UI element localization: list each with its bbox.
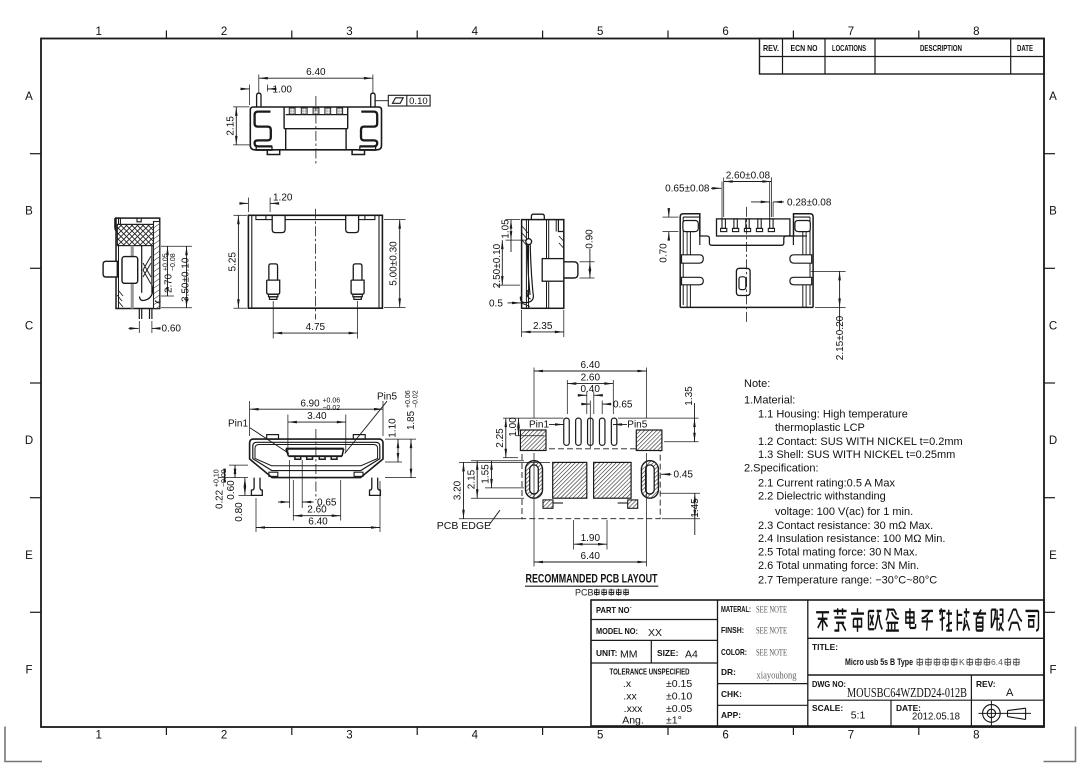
svg-text:6.40: 6.40 bbox=[581, 360, 601, 371]
svg-text:7: 7 bbox=[848, 730, 854, 742]
svg-text:.xxx: .xxx bbox=[624, 703, 643, 715]
svg-text:SEE NOTE: SEE NOTE bbox=[756, 649, 787, 659]
svg-text:RECOMMANDED PCB LAYOUT: RECOMMANDED PCB LAYOUT bbox=[526, 574, 658, 586]
svg-text:UNIT:: UNIT: bbox=[596, 648, 617, 658]
svg-text:2.2 Dielectric withstanding: 2.2 Dielectric withstanding bbox=[758, 491, 886, 503]
svg-text:SEE NOTE: SEE NOTE bbox=[756, 627, 787, 637]
svg-text:−0.02: −0.02 bbox=[413, 390, 420, 408]
svg-text:DWG NO:: DWG NO: bbox=[812, 679, 846, 689]
svg-text:0.40: 0.40 bbox=[580, 384, 600, 395]
svg-text:1.Material:: 1.Material: bbox=[744, 395, 795, 407]
svg-text:F: F bbox=[25, 665, 32, 677]
svg-text:0.22: 0.22 bbox=[215, 490, 226, 509]
svg-text:1.20: 1.20 bbox=[273, 193, 293, 204]
svg-text:Pin1: Pin1 bbox=[228, 419, 248, 430]
svg-text:DATE: DATE bbox=[1017, 44, 1033, 53]
svg-text:B: B bbox=[25, 206, 33, 218]
svg-text:5: 5 bbox=[597, 730, 603, 742]
svg-text:MODEL NO:: MODEL NO: bbox=[596, 626, 638, 636]
svg-text:1.55: 1.55 bbox=[481, 464, 492, 484]
svg-text:0.65: 0.65 bbox=[613, 400, 633, 411]
svg-text:8: 8 bbox=[973, 730, 979, 742]
svg-text:1.2 Contact: SUS WITH NICK: 1.2 Contact: SUS WITH NICKEL t=0.2mm bbox=[758, 436, 963, 448]
svg-text:7: 7 bbox=[848, 26, 854, 38]
svg-text:+0.05: +0.05 bbox=[163, 253, 170, 271]
svg-text:xiayouhong: xiayouhong bbox=[757, 671, 798, 682]
svg-text:2.15: 2.15 bbox=[225, 116, 236, 136]
svg-text:2.Specification:: 2.Specification: bbox=[744, 463, 819, 475]
svg-text:2.3 Contact resistance: 30: 2.3 Contact resistance: 30 mΩ Max. bbox=[758, 520, 933, 532]
svg-text:Note:: Note: bbox=[744, 378, 770, 390]
svg-text:CHK:: CHK: bbox=[721, 689, 742, 699]
svg-text:+0.06: +0.06 bbox=[322, 398, 340, 405]
svg-text:2: 2 bbox=[221, 26, 227, 38]
svg-text:−0.08: −0.08 bbox=[170, 253, 177, 271]
svg-text:5.25: 5.25 bbox=[227, 252, 238, 272]
svg-text:0.10: 0.10 bbox=[409, 96, 428, 107]
svg-text:±0.10: ±0.10 bbox=[666, 691, 692, 703]
svg-text:C: C bbox=[25, 320, 33, 332]
svg-text:1.3 Shell: SUS WITH NICKEL: 1.3 Shell: SUS WITH NICKEL t=0.25mm bbox=[758, 449, 955, 461]
svg-text:TOLERANCE UNSPECIFIED: TOLERANCE UNSPECIFIED bbox=[610, 667, 690, 677]
svg-text:2.60: 2.60 bbox=[307, 505, 327, 516]
svg-text:6.4: 6.4 bbox=[991, 657, 1003, 667]
svg-text:6.40: 6.40 bbox=[308, 517, 328, 528]
svg-text:1.05: 1.05 bbox=[501, 219, 512, 239]
svg-text:4: 4 bbox=[472, 26, 479, 38]
svg-text:COLOR:: COLOR: bbox=[721, 647, 747, 657]
svg-text:E: E bbox=[1049, 550, 1057, 562]
svg-text:6.40: 6.40 bbox=[306, 67, 326, 78]
svg-text:1.90: 1.90 bbox=[581, 533, 601, 544]
svg-text:+0.10: +0.10 bbox=[214, 469, 221, 487]
svg-text:Pin5: Pin5 bbox=[377, 392, 397, 403]
svg-text:1: 1 bbox=[95, 26, 101, 38]
svg-text:2012.05.18: 2012.05.18 bbox=[912, 711, 960, 723]
svg-text:4: 4 bbox=[472, 730, 479, 742]
svg-text:2.5 Total mating force: 30: 2.5 Total mating force: 30 N Max. bbox=[758, 547, 918, 559]
svg-text:5: 5 bbox=[597, 26, 603, 38]
svg-text:5.00±0.30: 5.00±0.30 bbox=[389, 241, 400, 286]
svg-text:3.40: 3.40 bbox=[307, 411, 327, 422]
svg-text:2.6 Total unmating force:: 2.6 Total unmating force: 3N Min. bbox=[758, 560, 919, 572]
svg-text:A: A bbox=[1049, 91, 1057, 103]
svg-text:A: A bbox=[25, 91, 33, 103]
svg-text:±1°: ±1° bbox=[666, 715, 682, 727]
svg-text:Pin1: Pin1 bbox=[529, 420, 549, 431]
svg-text:0.70: 0.70 bbox=[659, 243, 670, 263]
svg-text:FINSH:: FINSH: bbox=[721, 625, 744, 635]
svg-text:APP:: APP: bbox=[721, 710, 741, 720]
svg-text:2.15: 2.15 bbox=[466, 469, 477, 489]
svg-text:2.50±0.10: 2.50±0.10 bbox=[492, 243, 503, 288]
svg-text:Ang.: Ang. bbox=[622, 715, 644, 727]
svg-text:thermoplastic LCP: thermoplastic LCP bbox=[775, 422, 865, 434]
svg-text:1.45: 1.45 bbox=[690, 498, 701, 518]
svg-text:SEE NOTE: SEE NOTE bbox=[756, 606, 787, 616]
svg-text:A: A bbox=[1006, 687, 1014, 699]
svg-text:2: 2 bbox=[221, 730, 227, 742]
svg-text:K: K bbox=[959, 657, 965, 667]
svg-text:3.20: 3.20 bbox=[453, 480, 464, 500]
svg-text:1.1 Housing: High temperatu: 1.1 Housing: High temperature bbox=[758, 409, 908, 421]
svg-text:+0.06: +0.06 bbox=[405, 390, 412, 408]
svg-text:SCALE:: SCALE: bbox=[812, 703, 843, 713]
svg-text:.x: .x bbox=[623, 678, 632, 690]
svg-text:1.00: 1.00 bbox=[273, 84, 293, 95]
svg-text:−0.00: −0.00 bbox=[221, 469, 228, 487]
svg-text:1.35: 1.35 bbox=[684, 386, 695, 406]
svg-text:6.90: 6.90 bbox=[301, 399, 321, 410]
svg-text:REV:: REV: bbox=[976, 679, 996, 689]
svg-text:2.1 Current rating:0.5 A Ma: 2.1 Current rating:0.5 A Max bbox=[758, 478, 895, 490]
svg-text:3.50±0.10: 3.50±0.10 bbox=[181, 257, 192, 302]
svg-text:LOCATIONS: LOCATIONS bbox=[832, 44, 866, 53]
svg-text:MM: MM bbox=[620, 649, 638, 661]
svg-text:voltage: 100 V(ac) for 1: voltage: 100 V(ac) for 1 min. bbox=[775, 506, 913, 518]
svg-text:2.70: 2.70 bbox=[164, 273, 175, 293]
svg-text:2.25: 2.25 bbox=[495, 428, 506, 448]
svg-text:6: 6 bbox=[722, 26, 728, 38]
svg-text:4.75: 4.75 bbox=[306, 322, 326, 333]
svg-text:±0.15: ±0.15 bbox=[666, 678, 692, 690]
svg-text:MOUSBC64WZDD24-012B: MOUSBC64WZDD24-012B bbox=[847, 686, 967, 701]
svg-text:F: F bbox=[1049, 665, 1056, 677]
svg-text:.xx: .xx bbox=[623, 691, 637, 703]
svg-text:1.00: 1.00 bbox=[508, 417, 519, 437]
svg-text:5:1: 5:1 bbox=[851, 710, 866, 722]
svg-text:PCB: PCB bbox=[575, 587, 594, 597]
svg-text:0.65±0.08: 0.65±0.08 bbox=[665, 184, 710, 195]
svg-text:0.80: 0.80 bbox=[234, 502, 245, 522]
svg-text:D: D bbox=[25, 435, 33, 447]
svg-text:2.60: 2.60 bbox=[581, 373, 601, 384]
svg-text:A4: A4 bbox=[685, 649, 698, 661]
svg-text:0.5: 0.5 bbox=[489, 298, 503, 309]
svg-text:1: 1 bbox=[95, 730, 101, 742]
svg-text:PCB EDGE: PCB EDGE bbox=[437, 520, 491, 532]
svg-text:±0.05: ±0.05 bbox=[666, 703, 692, 715]
svg-text:0.28±0.08: 0.28±0.08 bbox=[787, 197, 832, 208]
svg-text:6: 6 bbox=[722, 730, 728, 742]
svg-text:0.60: 0.60 bbox=[162, 324, 182, 335]
svg-text:3: 3 bbox=[346, 730, 352, 742]
svg-text:6.40: 6.40 bbox=[581, 551, 601, 562]
svg-text:DR:: DR: bbox=[721, 667, 736, 677]
svg-text:REV.: REV. bbox=[763, 44, 779, 53]
svg-text:2.60±0.08: 2.60±0.08 bbox=[726, 171, 771, 182]
svg-text:C: C bbox=[1049, 320, 1057, 332]
svg-text:1.85: 1.85 bbox=[406, 410, 417, 430]
svg-text:2.15±0.20: 2.15±0.20 bbox=[835, 315, 846, 360]
svg-text:3: 3 bbox=[346, 26, 352, 38]
svg-text:B: B bbox=[1049, 206, 1057, 218]
svg-text:1.10: 1.10 bbox=[388, 418, 399, 438]
svg-text:Pin5: Pin5 bbox=[627, 420, 647, 431]
svg-text:ECN NO: ECN NO bbox=[791, 44, 819, 53]
svg-text:8: 8 bbox=[973, 26, 979, 38]
svg-text:Micro usb 5s B Type: Micro usb 5s B Type bbox=[845, 657, 913, 667]
svg-text:D: D bbox=[1049, 435, 1057, 447]
svg-text:MATERAL:: MATERAL: bbox=[721, 604, 751, 614]
svg-text:0.45: 0.45 bbox=[674, 470, 694, 481]
svg-text:2.7 Temperature range: −30°: 2.7 Temperature range: −30°C~80°C bbox=[758, 575, 937, 587]
svg-text:0.90: 0.90 bbox=[585, 229, 596, 249]
svg-text:2.35: 2.35 bbox=[533, 321, 553, 332]
svg-text:E: E bbox=[25, 550, 33, 562]
svg-text:PART NO˙: PART NO˙ bbox=[596, 605, 632, 615]
svg-text:DESCRIPTION: DESCRIPTION bbox=[920, 44, 962, 53]
svg-text:XX: XX bbox=[648, 627, 662, 639]
svg-text:TITLE:: TITLE: bbox=[812, 642, 838, 652]
svg-text:SIZE:: SIZE: bbox=[657, 648, 678, 658]
svg-text:2.4 Insulation resistance:: 2.4 Insulation resistance: 100 MΩ Min. bbox=[758, 533, 945, 545]
